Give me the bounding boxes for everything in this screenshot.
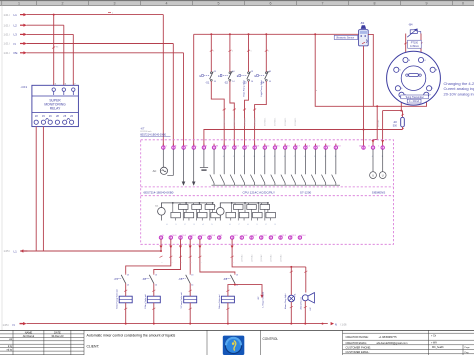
svg-text:Q230AC: Q230AC	[260, 254, 263, 262]
svg-text:13: 13	[236, 274, 238, 276]
svg-text:Page: Page	[465, 347, 471, 349]
svg-text:0: 0	[462, 2, 464, 6]
terminal Q1.4	[298, 235, 306, 240]
svg-text:L2: L2	[14, 24, 18, 28]
svg-text:.7: .7	[238, 224, 240, 226]
svg-text:1: 1	[213, 51, 214, 53]
input contact blade	[291, 149, 295, 185]
relay output group 1L1	[155, 202, 220, 221]
svg-text:1: 1	[378, 145, 379, 147]
svg-text:8: 8	[374, 2, 376, 6]
wire Q0.3 to contact K4	[200, 239, 235, 273]
svg-text:30-Dec-23: 30-Dec-23	[51, 334, 64, 338]
svg-text:I1.3: I1.3	[337, 145, 340, 147]
svg-text:RELAY: RELAY	[50, 107, 61, 111]
svg-text:I0.6: I0.6	[287, 145, 290, 147]
solenoid coil -Y3 V Pump Solenoid	[181, 290, 197, 310]
PLC K7 S7-1200 dashed enclosure	[140, 126, 393, 244]
svg-text:.3: .3	[274, 224, 276, 226]
wire number tick on L1 line	[108, 12, 111, 14]
svg-text:Mixer Solenoid: Mixer Solenoid	[218, 294, 221, 309]
svg-text:1.01 /: 1.01 /	[4, 23, 11, 27]
wire Y1 to N bus	[125, 303, 127, 324]
svg-text:N: N	[13, 323, 15, 327]
svg-text:7: 7	[322, 2, 324, 6]
node 24V switch bus	[194, 33, 359, 35]
input contact blade	[220, 149, 224, 185]
PE internal arrow	[182, 149, 186, 186]
wire bus to switch -S4	[265, 34, 267, 72]
svg-text:.1: .1	[175, 224, 177, 226]
svg-text:CUSTOMER PHONE:: CUSTOMER PHONE:	[346, 345, 372, 349]
wire lamp drop	[290, 267, 292, 295]
svg-text:I1.0: I1.0	[307, 145, 310, 147]
wire	[27, 43, 174, 45]
RTD sensor B4	[407, 23, 421, 38]
svg-text:1M: 1M	[215, 145, 218, 147]
wire number tick	[198, 256, 201, 258]
svg-text:2L: 2L	[214, 206, 216, 208]
svg-text:13: 13	[127, 274, 129, 276]
svg-text:1: 1	[162, 262, 164, 263]
svg-text:1.05 /: 1.05 /	[4, 249, 11, 253]
svg-text:U: U	[382, 173, 384, 177]
svg-text:.5: .5	[211, 224, 213, 226]
wire RTD loop left	[405, 34, 407, 58]
svg-text:-S2: -S2	[224, 80, 229, 84]
svg-text:230VAC1: 230VAC1	[274, 117, 277, 126]
terminal I0.5	[273, 144, 279, 150]
terminal N	[172, 144, 177, 150]
svg-text:S7-1200 rack: S7-1200 rack	[140, 130, 151, 133]
svg-text:.3: .3	[193, 224, 195, 226]
terminal M	[202, 144, 207, 150]
input contact blade	[240, 149, 244, 185]
switch -S3	[237, 71, 254, 84]
svg-text:230VAC1: 230VAC1	[233, 117, 236, 126]
wire Y4 to N bus	[227, 303, 229, 324]
terminal Q1.3	[289, 235, 297, 240]
wire transmitter return	[400, 99, 402, 111]
wire M common line	[204, 130, 403, 147]
wire AI0 tap	[373, 106, 377, 146]
svg-text:3: 3	[114, 2, 116, 6]
wire L2 drop to monitoring relay	[63, 25, 65, 85]
wire number tick	[169, 256, 172, 258]
annotation analog input note	[444, 81, 474, 96]
svg-text:1: 1	[233, 262, 235, 263]
wire number tick	[160, 256, 163, 258]
svg-text:PE: PE	[14, 51, 18, 55]
terminal I1.3	[334, 144, 340, 150]
terminal L+	[192, 144, 198, 150]
svg-text:CUSTOMER EMAIL:: CUSTOMER EMAIL:	[346, 350, 370, 354]
wire buzzer drop	[305, 267, 307, 293]
contact -K3	[178, 273, 193, 286]
svg-text:1.01 /: 1.01 /	[4, 51, 11, 55]
terminal Q1.1	[269, 235, 277, 240]
terminal Q0.1	[179, 235, 187, 240]
wire loop supply from bus	[315, 34, 426, 106]
svg-text:230VAC1: 230VAC1	[253, 117, 256, 126]
wire number tick on L1 tap	[52, 47, 55, 49]
wire switch -S2 to PLC input	[230, 81, 234, 146]
svg-text:.1: .1	[256, 224, 258, 226]
wire switch -S1 to PLC input	[211, 81, 224, 146]
node N return bus	[3, 322, 348, 327]
svg-text:Alarm Buzzer: Alarm Buzzer	[300, 297, 303, 310]
contact -K4	[223, 273, 238, 286]
wire RTD loop right	[420, 34, 422, 58]
terminal 2L	[218, 235, 224, 240]
svg-text:Q230AC: Q230AC	[250, 254, 253, 262]
svg-text:1: 1	[171, 262, 173, 263]
svg-text:14: 14	[127, 285, 129, 287]
svg-text:4 - 20mA: 4 - 20mA	[409, 100, 419, 103]
svg-text:I0.4: I0.4	[266, 145, 269, 147]
svg-text:Q230AC: Q230AC	[241, 254, 244, 262]
node N incoming feed	[4, 42, 174, 46]
wire	[27, 323, 328, 325]
wire	[20, 250, 161, 252]
svg-text:1: 1	[251, 51, 252, 53]
terminal Q0.4	[208, 235, 216, 240]
svg-text:NAME: NAME	[25, 330, 33, 334]
wire Y3 to N bus	[189, 303, 191, 324]
svg-text:DATE: DATE	[54, 330, 61, 334]
sheet left edge	[1, 5, 3, 330]
svg-text:-K3: -K3	[178, 277, 183, 281]
wire number tick	[179, 256, 182, 258]
node L3 incoming feed	[4, 33, 74, 37]
AC supply symbol	[153, 149, 174, 175]
svg-text:1: 1	[232, 51, 233, 53]
svg-text:13: 13	[155, 274, 157, 276]
node bus junction S2	[229, 33, 231, 35]
terminal I0.1	[233, 144, 239, 150]
terminal analog 0	[368, 145, 374, 149]
svg-text:V Pump Solenoid: V Pump Solenoid	[181, 292, 183, 309]
switch -S2	[218, 71, 235, 84]
wire bus to switch -S3	[248, 34, 250, 72]
terminal I0.4	[263, 144, 269, 150]
svg-text:I0.0: I0.0	[226, 145, 229, 147]
node L1 incoming feed	[4, 13, 164, 17]
svg-text:1: 1	[18, 2, 20, 6]
terminal Q0.6	[240, 235, 248, 240]
svg-text:CREATOR PHONE:: CREATOR PHONE:	[346, 335, 369, 339]
terminal analog 2M	[359, 145, 365, 149]
wire Y2 to N bus	[153, 303, 155, 324]
wire number tick	[189, 256, 192, 258]
DC sensor supply symbol	[200, 149, 208, 170]
svg-text:-B4: -B4	[408, 23, 413, 27]
analog input channel 0	[370, 149, 377, 178]
label Ultrasonic Sensor	[334, 35, 358, 39]
wire K2 to Y2	[153, 283, 155, 296]
svg-text:CREATOR EMAIL:: CREATOR EMAIL:	[346, 341, 368, 345]
svg-text:230VAC1: 230VAC1	[243, 117, 246, 126]
analog input channel 1	[379, 149, 386, 178]
solenoid coil -Y2 Filling Solenoid	[145, 290, 161, 310]
input contact blade	[332, 149, 336, 185]
label PT100	[408, 40, 422, 48]
wire bus to switch -S1	[210, 34, 212, 72]
terminal I0.3	[253, 144, 259, 150]
svg-text:Filling Solenoid: Filling Solenoid	[145, 294, 147, 309]
svg-text:Alarm Stop Light: Alarm Stop Light	[284, 293, 287, 309]
svg-text:I0.2: I0.2	[246, 145, 249, 147]
svg-text:CONTROL: CONTROL	[263, 337, 279, 341]
wire K4 to Y4	[228, 283, 235, 296]
svg-text:1.05 /: 1.05 /	[3, 323, 10, 327]
svg-text:I0.3: I0.3	[256, 145, 259, 147]
input contact blade	[250, 149, 254, 185]
svg-text:I0.1: I0.1	[236, 145, 239, 147]
wire L3 drop to monitoring relay	[72, 34, 74, 85]
svg-text:5: 5	[218, 2, 220, 6]
input contact blade	[230, 149, 234, 185]
svg-text:-K4: -K4	[223, 277, 228, 281]
svg-text:230VAC1: 230VAC1	[264, 117, 267, 126]
wire relay pin 15 down	[42, 127, 44, 251]
input contact blade	[322, 149, 326, 185]
wire	[27, 52, 184, 54]
input contact blade	[261, 149, 265, 185]
wire bus drop to PLC L+ terminal	[193, 34, 195, 146]
svg-text:6ES7214-1BG40-0XB0: 6ES7214-1BG40-0XB0	[140, 134, 166, 137]
terminal 1L	[159, 235, 165, 240]
terminal L1	[162, 144, 167, 150]
wire Q0.2 to contact K3	[189, 239, 191, 273]
svg-text:L-Stage Indicator: L-Stage Indicator	[262, 291, 265, 307]
svg-text:.2: .2	[265, 224, 267, 226]
svg-text:1: 1	[181, 262, 183, 263]
svg-text:L1: L1	[14, 13, 18, 17]
solenoid coil -Y4 Mixer Solenoid	[218, 290, 235, 310]
terminal analog 1	[378, 145, 384, 149]
node relay output bus to PLC common	[4, 249, 163, 253]
terminal Q0.3	[198, 235, 206, 240]
svg-text:Q230AC: Q230AC	[270, 254, 273, 262]
contact -K2	[142, 273, 157, 286]
wire 2L to lamp and buzzer	[232, 239, 306, 267]
wire K4 branch to stage indicator	[235, 285, 262, 295]
terminal Q1.2	[279, 235, 287, 240]
svg-text:/ 1.06: / 1.06	[340, 323, 347, 327]
svg-text:CLIENT:: CLIENT:	[87, 344, 100, 348]
terminal I0.6	[283, 144, 289, 150]
terminal I1.0	[304, 144, 310, 150]
transmitter connector circle	[387, 51, 441, 105]
resistor R2	[393, 111, 405, 130]
sensor B3 ultrasonic	[359, 21, 369, 46]
svg-text:420mA1: 420mA1	[377, 119, 380, 127]
lamp H1 Alarm Stop Light	[284, 293, 296, 309]
svg-text:14: 14	[191, 285, 193, 287]
svg-text:230VAC1: 230VAC1	[284, 117, 287, 126]
svg-text:.6: .6	[229, 224, 231, 226]
wire N drop to PLC terminal	[172, 44, 174, 147]
svg-text:AC: AC	[153, 169, 157, 173]
terminal I0.0	[223, 144, 229, 150]
svg-text:1: 1	[268, 51, 269, 53]
svg-text:-K7: -K7	[140, 126, 145, 130]
logo	[223, 336, 245, 355]
wire sensor right stub	[368, 34, 373, 106]
svg-text:-CF1: -CF1	[21, 85, 28, 89]
svg-text:+ Ch: + Ch	[431, 335, 437, 338]
svg-text:L1: L1	[165, 145, 167, 147]
wire	[27, 14, 164, 16]
wire relay pin 18 down	[35, 127, 37, 251]
node PE incoming feed	[4, 51, 184, 55]
svg-text:.2: .2	[184, 224, 186, 226]
input contact blade	[311, 149, 315, 185]
terminal I0.2	[243, 144, 249, 150]
terminal Q0.2	[189, 235, 197, 240]
input contact blade	[210, 149, 214, 185]
svg-text:-K1: -K1	[114, 277, 119, 281]
svg-text:1: 1	[200, 262, 202, 263]
solenoid coil -Y1 Main Pump Solenoid	[117, 288, 133, 309]
wire bus to switch -S2	[229, 34, 231, 72]
svg-text:ed by: ed by	[7, 350, 13, 352]
wire lamp to N bus	[290, 302, 292, 324]
svg-text:N: N	[335, 323, 337, 327]
svg-text:.0: .0	[247, 224, 249, 226]
svg-text:Automatic mixer control consid: Automatic mixer control considering the …	[87, 334, 176, 338]
terminal Q0.0	[169, 235, 177, 240]
svg-text:.0: .0	[166, 224, 168, 226]
svg-text:I0.7: I0.7	[297, 145, 300, 147]
svg-text:6ES7214-1BG40-0XB0: 6ES7214-1BG40-0XB0	[144, 191, 174, 195]
wire sensor output down	[363, 46, 365, 146]
wire	[27, 33, 74, 35]
svg-text:-S1: -S1	[205, 80, 210, 84]
contact -K1	[114, 273, 129, 286]
wire AI1 tap	[383, 110, 403, 112]
terminal 1M	[212, 144, 218, 150]
svg-text:1: 1	[191, 262, 193, 263]
svg-text:I1.2: I1.2	[327, 145, 330, 147]
svg-text:U: U	[372, 173, 374, 177]
node junction sensor 0V	[363, 129, 365, 131]
svg-text:-B3: -B3	[360, 21, 365, 25]
switch -S4	[255, 71, 272, 84]
svg-text:I0.5: I0.5	[276, 145, 279, 147]
svg-text:-K2: -K2	[142, 277, 147, 281]
node bus junction S4	[265, 33, 267, 35]
svg-text:20-10V analog inpu: 20-10V analog inpu	[444, 91, 474, 96]
svg-text:2M: 2M	[359, 145, 362, 147]
node L2 incoming feed	[4, 23, 64, 27]
svg-text:Ultrasonic Sensor: Ultrasonic Sensor	[336, 37, 354, 40]
svg-text:1.01 /: 1.01 /	[4, 33, 11, 37]
wire 1L common to relay bus	[160, 239, 162, 251]
input common rail	[212, 184, 341, 186]
svg-text:L3: L3	[14, 33, 18, 37]
wire K1 to Y1	[125, 283, 127, 296]
input contact blade	[281, 149, 285, 185]
svg-text:+ WA: + WA	[431, 342, 437, 345]
wire number tick	[231, 256, 234, 258]
wire L1 drop to PLC terminal	[162, 15, 164, 146]
wire switch -S4 to PLC input	[255, 81, 267, 146]
svg-text:MC_health: MC_health	[432, 346, 444, 349]
relay output group 2L	[214, 202, 275, 221]
svg-text:6: 6	[270, 2, 272, 6]
node bus junction S1	[210, 33, 212, 35]
svg-text:S7-1200: S7-1200	[300, 191, 312, 195]
off-page arrow stage indicator	[260, 295, 263, 299]
terminal I0.7	[294, 144, 300, 150]
terminal Q0.7	[250, 235, 258, 240]
svg-text:1.01 /: 1.01 /	[4, 42, 11, 46]
svg-text:+1 9845983775: +1 9845983775	[379, 335, 398, 339]
svg-text:SIEMENS: SIEMENS	[372, 191, 386, 195]
svg-text:9: 9	[426, 2, 428, 6]
title block	[0, 330, 474, 355]
buzzer H2	[300, 293, 315, 311]
wire L1 tap to monitoring relay	[53, 15, 55, 86]
input contact blade	[271, 149, 275, 185]
svg-text:N: N	[14, 42, 16, 46]
svg-text:I1.1: I1.1	[317, 145, 320, 147]
terminal I1.1	[314, 144, 320, 150]
svg-text:L1: L1	[14, 249, 18, 253]
wire PE drop to PLC terminal	[183, 53, 185, 146]
svg-text:Abl Daruk: Abl Daruk	[23, 334, 35, 338]
sheet column ruler band	[0, 0, 474, 6]
svg-text:Temp Transmitter: Temp Transmitter	[405, 96, 424, 99]
node bus junction S3	[248, 33, 250, 35]
svg-text:13: 13	[191, 274, 193, 276]
terminal I1.2	[324, 144, 330, 150]
svg-text:14: 14	[155, 285, 157, 287]
terminal PE	[182, 144, 188, 150]
input contact blade	[301, 149, 305, 185]
svg-text:230VAC1: 230VAC1	[223, 117, 226, 126]
svg-text:Main Pump Solenoid: Main Pump Solenoid	[117, 288, 119, 308]
wire Q0.0 to contact K1	[126, 239, 171, 273]
svg-text:.4: .4	[202, 224, 204, 226]
svg-text:Q230AC: Q230AC	[279, 254, 282, 262]
svg-text:abi.daruk2000@gmail.com: abi.daruk2000@gmail.com	[377, 341, 408, 345]
svg-text:0-39mA: 0-39mA	[410, 45, 419, 48]
wire Q0.1 to contact K2	[154, 239, 181, 273]
terminal Q0.5	[230, 235, 238, 240]
wire K3 to Y3	[189, 283, 191, 296]
terminal Q1.0	[260, 235, 268, 240]
switch -S1	[200, 71, 217, 84]
svg-text:1.01 /: 1.01 /	[4, 13, 11, 17]
svg-text:4: 4	[166, 2, 168, 6]
svg-text:High Pump Start: High Pump Start	[260, 80, 263, 96]
svg-text:1L1: 1L1	[155, 206, 158, 208]
relay CF1 Super Monitoring Relay	[21, 83, 79, 126]
wire buzzer to N bus	[304, 301, 306, 324]
L+ internal arrow	[192, 149, 196, 186]
svg-text:0: 0	[368, 145, 369, 147]
svg-text:500: 500	[393, 124, 398, 127]
svg-text:2: 2	[62, 2, 64, 6]
wire	[27, 24, 64, 26]
wire switch -S3 to PLC input	[245, 81, 249, 146]
svg-text:CPU 1214C AC/DC/RLY: CPU 1214C AC/DC/RLY	[243, 191, 275, 195]
svg-text:230VAC1: 230VAC1	[294, 117, 297, 126]
svg-text:Main Pump Start: Main Pump Start	[242, 80, 245, 97]
